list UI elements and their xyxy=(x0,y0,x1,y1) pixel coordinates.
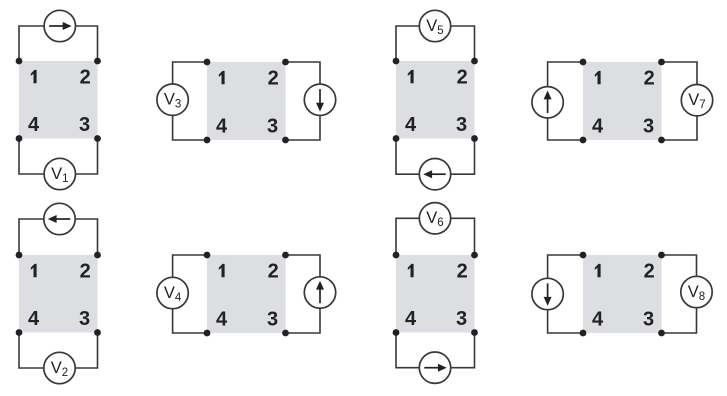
svg-text:3: 3 xyxy=(267,115,278,137)
svg-text:3: 3 xyxy=(456,308,467,330)
svg-text:4: 4 xyxy=(216,308,228,330)
svg-text:2: 2 xyxy=(644,67,655,89)
svg-text:4: 4 xyxy=(28,308,40,330)
svg-text:2: 2 xyxy=(80,66,91,88)
svg-text:4: 4 xyxy=(592,115,604,137)
svg-text:4: 4 xyxy=(216,115,228,137)
svg-text:3: 3 xyxy=(79,114,90,136)
svg-text:4: 4 xyxy=(28,114,40,136)
svg-text:2: 2 xyxy=(457,66,468,88)
svg-text:2: 2 xyxy=(268,67,279,89)
svg-text:3: 3 xyxy=(643,308,654,330)
svg-text:3: 3 xyxy=(456,114,467,136)
svg-text:2: 2 xyxy=(80,260,91,282)
svg-text:4: 4 xyxy=(592,308,604,330)
svg-text:3: 3 xyxy=(79,308,90,330)
svg-text:2: 2 xyxy=(268,260,279,282)
svg-text:3: 3 xyxy=(643,115,654,137)
svg-text:2: 2 xyxy=(644,260,655,282)
svg-text:4: 4 xyxy=(405,114,417,136)
svg-text:2: 2 xyxy=(457,260,468,282)
svg-text:3: 3 xyxy=(267,308,278,330)
svg-text:4: 4 xyxy=(405,308,417,330)
